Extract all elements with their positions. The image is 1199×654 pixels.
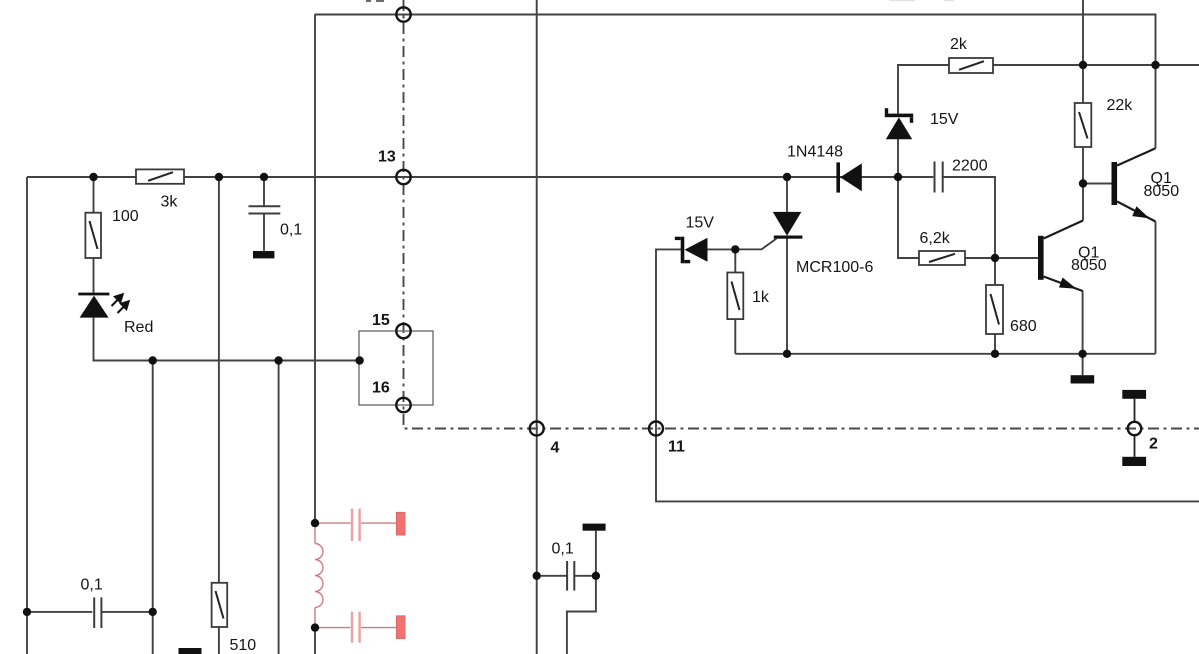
- inductor L1 (red): [315, 523, 323, 628]
- ground bar bottom-left: [179, 648, 202, 654]
- wire 510 branch bottom: [218, 627, 220, 654]
- red terminal pad top: [396, 512, 405, 535]
- wire q1 base: [1083, 183, 1112, 185]
- node y65-22k: [1079, 61, 1087, 69]
- node main-cap01: [260, 173, 268, 181]
- wire zener bottom to main rail: [897, 139, 899, 177]
- wire mid cap right: [574, 575, 596, 577]
- svg-text:16: 16: [372, 380, 390, 397]
- slash 6,2k: [929, 254, 955, 262]
- wire x315 vertical: [314, 15, 316, 524]
- node coil top: [311, 519, 319, 527]
- pin 16: [396, 398, 410, 412]
- node midcap right: [592, 572, 600, 580]
- svg-text:8050: 8050: [1144, 183, 1180, 200]
- red capacitor top: [315, 509, 396, 542]
- svg-text:0,1: 0,1: [81, 577, 103, 594]
- svg-text:0,1: 0,1: [552, 541, 574, 558]
- zener diode 15V right: [885, 108, 913, 139]
- pin 13: [396, 170, 410, 184]
- crystal terminal pin 2: [1122, 390, 1146, 466]
- node coil bottom: [311, 623, 319, 631]
- wire 100 resistor top: [93, 177, 95, 213]
- wire after 2200 cap: [942, 177, 995, 285]
- wire q2 emitter vertical: [1082, 291, 1084, 354]
- transistor Q1 8050 top: [1112, 148, 1156, 221]
- ground bar mid: [583, 524, 606, 531]
- node rail-ground: [1078, 350, 1086, 358]
- node lower rail x153: [149, 356, 157, 364]
- slash 22k: [1079, 112, 1088, 139]
- svg-text:15V: 15V: [686, 215, 715, 232]
- svg-text:22k: 22k: [1107, 97, 1134, 114]
- node main-thyristor: [783, 173, 791, 181]
- svg-text:0,1: 0,1: [280, 222, 302, 239]
- resistor 2k: [949, 58, 993, 73]
- node y65-q1: [1151, 61, 1159, 69]
- wire zener15V-left cathode to pin11: [656, 249, 1199, 501]
- wire x279 vertical: [278, 361, 280, 654]
- node q1 base tap: [1079, 179, 1087, 187]
- wire 1k top: [734, 249, 736, 272]
- pin circles: [396, 7, 1141, 435]
- wire 0,1 cap top branch: [263, 177, 265, 206]
- wire left vertical: [26, 177, 28, 654]
- thyristor MCR100-6: [735, 212, 802, 250]
- node gate-1k: [731, 245, 739, 253]
- slash 510: [216, 591, 224, 619]
- wire q1 emitter vertical: [1155, 222, 1157, 354]
- capacitor 0,1 bottom-middle: [567, 561, 574, 591]
- wire 6,2k left branch: [898, 177, 919, 258]
- pin top: [396, 7, 410, 21]
- svg-text:2k: 2k: [950, 36, 968, 53]
- wire q2 base: [995, 257, 1038, 259]
- cropped text fragments at top edge: [366, 0, 954, 2]
- svg-text:3k: 3k: [161, 194, 179, 211]
- resistor 1k: [727, 273, 743, 320]
- resistor 3k: [136, 169, 184, 183]
- wire x1083 top vertical: [1082, 0, 1084, 103]
- wire 510 branch top: [218, 177, 220, 583]
- node lower rail x279: [274, 356, 282, 364]
- node rail-thyristor: [783, 350, 791, 358]
- slash 680: [991, 294, 1000, 325]
- node main-100: [89, 173, 97, 181]
- pin 15: [396, 324, 410, 338]
- wire LED to lower rail: [94, 318, 360, 361]
- wire bottom-left cap right: [102, 611, 153, 613]
- wire 22k to q2 collector: [1082, 147, 1084, 221]
- resistor 100: [85, 213, 101, 258]
- transistor Q2 8050: [1038, 221, 1083, 292]
- resistor 680: [986, 285, 1003, 334]
- wire thyristor anode: [786, 177, 788, 212]
- wire 6,2k right: [965, 257, 995, 259]
- svg-text:2: 2: [1149, 436, 1158, 453]
- ground bar under 0,1 top: [253, 251, 274, 258]
- node blcap left: [23, 608, 31, 616]
- svg-text:100: 100: [112, 208, 139, 225]
- wire mid jog down: [567, 576, 596, 654]
- pin 11: [649, 422, 663, 436]
- node rail-680: [991, 350, 999, 358]
- wire bottom-left cap left: [27, 611, 92, 613]
- wire 100 to LED: [93, 258, 95, 293]
- svg-text:1k: 1k: [752, 289, 770, 306]
- wire top rail: [315, 15, 1156, 149]
- wire mid cap left: [537, 575, 567, 577]
- LED D1 Red: [78, 293, 130, 318]
- red capacitor bottom: [315, 612, 396, 643]
- wire main horizontal rail: [27, 176, 933, 178]
- wire mid cap to ground: [595, 531, 597, 576]
- pin 2: [1128, 422, 1141, 435]
- svg-text:2200: 2200: [952, 158, 988, 175]
- wire thyristor cathode: [786, 238, 788, 353]
- svg-text:1N4148: 1N4148: [787, 144, 843, 161]
- red terminal pad bottom: [396, 616, 405, 639]
- svg-text:680: 680: [1010, 318, 1037, 335]
- wire 2k left to zener: [898, 65, 949, 114]
- node main-zener: [894, 173, 902, 181]
- svg-text:15: 15: [372, 312, 390, 329]
- interface dash-dot line vertical: [404, 0, 1199, 429]
- connector box pins 15-16: [359, 331, 433, 405]
- resistor 6,2k: [919, 251, 965, 265]
- svg-text:8050: 8050: [1071, 257, 1107, 274]
- ground bar right: [1071, 375, 1095, 383]
- wire 0,1 cap to ground: [263, 214, 265, 251]
- svg-text:MCR100-6: MCR100-6: [796, 259, 873, 276]
- svg-text:Red: Red: [124, 319, 153, 336]
- wire 1k bottom: [734, 319, 736, 354]
- svg-text:11: 11: [668, 439, 685, 456]
- wire below 680: [994, 334, 996, 354]
- wire lower rail right: [735, 353, 1155, 355]
- svg-text:13: 13: [378, 149, 396, 166]
- svg-text:4: 4: [551, 440, 560, 457]
- capacitor 0,1 bottom-left: [94, 597, 101, 628]
- resistor 510: [212, 583, 228, 627]
- slash 1k: [732, 282, 740, 311]
- wire x536 vertical: [536, 0, 538, 654]
- svg-text:510: 510: [230, 637, 257, 654]
- slash 2k: [959, 61, 984, 70]
- capacitor 2200: [935, 162, 943, 193]
- svg-text:15V: 15V: [930, 111, 959, 128]
- slash 100: [90, 221, 98, 249]
- node midcap left: [533, 572, 541, 580]
- node lower rail box: [355, 356, 363, 364]
- zener diode 15V left: [675, 237, 708, 264]
- node main-510: [215, 173, 223, 181]
- resistor 22k: [1075, 103, 1092, 147]
- wire x153 vertical: [152, 361, 154, 654]
- wire 2k right to right edge: [993, 64, 1199, 66]
- wire zener15V-left anode to node: [708, 248, 736, 250]
- svg-text:6,2k: 6,2k: [920, 230, 951, 247]
- wire ground stem right: [1082, 354, 1084, 375]
- wire x315 bottom stub: [314, 628, 316, 654]
- node 6,2k-q2: [991, 254, 999, 262]
- pin 4: [530, 422, 544, 436]
- slash 3k: [148, 172, 173, 181]
- diode 1N4148: [836, 162, 861, 192]
- capacitor 0,1 top: [249, 206, 281, 213]
- node blcap right: [149, 608, 157, 616]
